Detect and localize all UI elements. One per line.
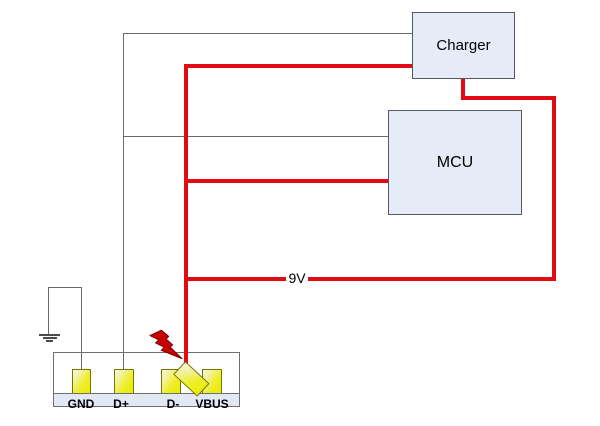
red wire: main vertical x=186 down to D- area — [184, 64, 188, 364]
wire ground stem vertical — [48, 287, 49, 334]
pin label VBUS — [192, 397, 232, 411]
pin label D+ — [101, 397, 141, 411]
red wire: right vertical x=553 — [552, 96, 556, 281]
ground symbol bar 2 — [43, 337, 57, 339]
ground symbol bar 3 — [46, 340, 54, 342]
pin label D- — [153, 397, 193, 411]
pin D+ — [114, 369, 134, 394]
pin VBUS — [202, 369, 222, 394]
connector body — [53, 352, 240, 407]
red wire: 9V horizontal y=279 — [184, 277, 556, 281]
tilted pin (broken D- contact) — [173, 361, 209, 396]
wire GND horizontal — [48, 287, 82, 288]
red wire: Charger left to x=186 (9V input top) — [184, 64, 412, 68]
pin GND — [72, 369, 91, 394]
wire GND vertical from pin — [81, 287, 82, 370]
block Charger — [412, 12, 515, 79]
red wire: horizontal y=98 under charger — [461, 96, 556, 100]
wire D+ vertical (x=123 from y=33 to connector pin) — [123, 33, 124, 370]
ground symbol bar 1 — [39, 334, 60, 336]
connector label strip — [53, 393, 240, 407]
pin label GND — [61, 397, 101, 411]
pin D- — [161, 369, 181, 394]
block MCU — [388, 110, 522, 215]
wire D+ horizontal top to Charger — [123, 33, 412, 34]
wire to MCU horizontal (y=136) — [123, 136, 388, 137]
red wire: branch to MCU y=181 — [184, 179, 388, 183]
lightning bolt — [144, 326, 186, 362]
label 9V — [286, 270, 308, 285]
red wire: vertical from Charger bottom x=462 — [461, 79, 465, 100]
